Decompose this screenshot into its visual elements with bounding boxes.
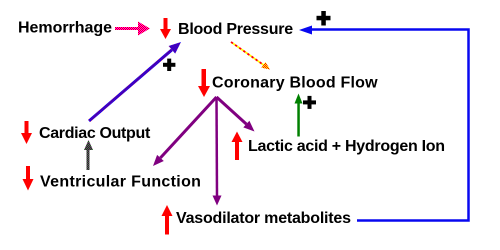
svg-text:Vasodilator metabolites: Vasodilator metabolites <box>176 210 351 227</box>
svg-text:Blood Pressure: Blood Pressure <box>178 21 293 38</box>
purple arrow Coronary vertex down to Vasodilator metabolites <box>213 97 222 206</box>
svg-text:Hemorrhage: Hemorrhage <box>18 20 112 37</box>
plus sign at top right feedback <box>317 11 331 26</box>
green-purple dithered arrow Ventricular Function to Cardiac Output <box>84 140 93 170</box>
red up arrow at Vasodilator metabolites <box>162 205 173 235</box>
red down arrow at Blood Pressure <box>160 18 171 39</box>
blue-violet arrow Cardiac Output to Blood Pressure <box>89 42 181 121</box>
plus sign near green arrow <box>303 96 316 109</box>
red up arrow at Lactic acid <box>232 132 243 161</box>
arrow pink Hemorrhage to Blood Pressure <box>115 22 150 36</box>
purple arrow Coronary vertex to down-right <box>217 97 255 132</box>
svg-text:Lactic acid + Hydrogen Ion: Lactic acid + Hydrogen Ion <box>248 138 445 155</box>
svg-text:Cardiac Output: Cardiac Output <box>39 125 151 142</box>
purple arrow Coronary vertex to down-left <box>153 97 217 166</box>
red down arrow at Cardiac Output <box>21 121 32 144</box>
red down arrow at Ventricular Function <box>23 166 34 191</box>
blue feedback wire Vasodilator metabolites to Blood Pressure <box>299 26 469 221</box>
plus sign near blue-violet arrow <box>163 59 175 71</box>
red down arrow at Coronary Blood Flow <box>198 69 210 97</box>
orange dashed arrow Blood Pressure to Coronary Blood Flow <box>231 42 270 70</box>
svg-text:Coronary Blood Flow: Coronary Blood Flow <box>212 75 378 92</box>
green arrow Lactic acid to Coronary Blood Flow <box>295 94 303 137</box>
svg-text:Ventricular Function: Ventricular Function <box>40 174 201 191</box>
